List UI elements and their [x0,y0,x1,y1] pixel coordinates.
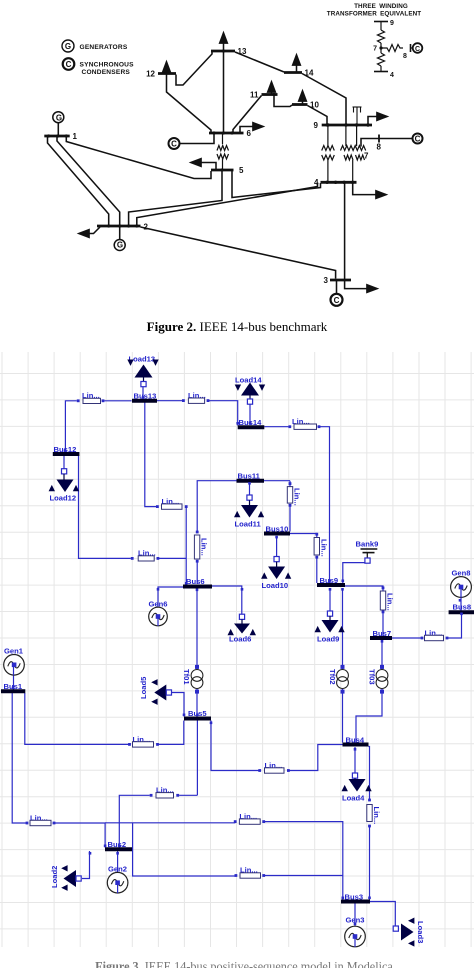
wire bus13 down to line13-6 [145,403,158,507]
wire bus6 to tf01 [196,589,198,670]
line Lin2-5 [150,786,179,798]
transformer Tf01 [182,665,203,694]
bus 13 arrow [223,33,225,51]
svg-text:C: C [171,140,177,149]
svg-text:Load14: Load14 [235,376,262,385]
load12 [49,469,80,503]
bus 9 [322,124,372,127]
line Lin2-4 [234,812,265,824]
wire line7-9 to bus7 [382,610,384,636]
load9 [315,611,345,644]
line Lin6-11 vertical [194,531,208,563]
svg-text:11: 11 [250,91,259,100]
wire bus3 to load3 [370,902,395,927]
wire line13-14 to bus14 [208,401,238,426]
wire load13 to bus13 [142,386,144,399]
svg-text:7: 7 [364,152,369,161]
svg-text:SYNCHRONOUS: SYNCHRONOUS [80,62,135,69]
svg-text:Figure 3. IEEE 14-bus positive: Figure 3. IEEE 14-bus positive-sequence … [95,960,393,968]
svg-text:Bus8: Bus8 [453,603,472,612]
bus5 bar [184,709,211,719]
svg-text:8: 8 [403,53,407,60]
line Lin1-5 [128,735,159,747]
wire gen3 to bus3 [354,904,356,937]
inset title THREE WINDING TRANSFORMER EQUIVALENT [327,3,421,18]
line 1-2 circuit a [48,137,109,225]
generator Gen8 [451,569,472,598]
svg-text:5: 5 [239,166,244,175]
svg-text:Tf02: Tf02 [328,669,337,685]
bus10 bar [264,525,290,534]
bus11 bar [237,472,265,481]
generator G2 [114,227,125,251]
transformer Tf02 [328,665,348,694]
load13 pointing up [127,355,158,387]
legend generator symbol G [62,40,74,52]
wire bus4 to load4 [354,747,356,773]
bus 14 [284,71,302,74]
line 1-5 [66,137,211,179]
wire bus12 to load12 [63,456,65,469]
wire bus10 right to line9-10 [290,534,317,538]
bus 12 [158,72,176,75]
svg-text:12: 12 [146,70,155,79]
line 2-5 [129,171,222,226]
line Lin3-4 vertical [367,799,381,828]
line 14-9 [302,74,346,125]
wire line12-13 to bus12 [65,401,76,452]
svg-text:G: G [56,114,62,123]
svg-text:Bus10: Bus10 [266,525,289,534]
wire line12-6 to bus6 [158,557,187,559]
bus 12 arrow [166,62,168,73]
wire bus7 right to line7-8 [392,637,422,639]
svg-text:3: 3 [324,276,329,285]
inset condenser C8 [411,43,423,53]
wire bus7 to tf03 [381,640,383,670]
line Lin7-9 vertical [380,587,394,614]
svg-text:Bus11: Bus11 [238,472,261,481]
svg-text:Bus7: Bus7 [373,629,392,638]
svg-text:C: C [415,46,420,53]
svg-text:Lin...: Lin... [292,488,301,506]
svg-text:CONDENSERS: CONDENSERS [82,69,131,76]
bus 10 [292,103,308,106]
wire line1-5 to bus5 [158,721,184,745]
line Lin13-14 [182,391,209,403]
wire tf03 to bus4 [356,689,382,743]
svg-text:Load9: Load9 [317,635,339,644]
line 5-4 [232,171,321,198]
svg-text:G: G [117,241,123,250]
wire line2-5 to bus2 [119,795,149,847]
svg-text:C: C [415,135,421,144]
wire line10-11 to bus10 [289,481,291,532]
line 11-6 [233,96,262,134]
line 13-6 [223,52,225,133]
wire line2-3 to bus3 [264,875,343,877]
wire line14-9 down to bus9 [318,427,330,583]
line Lin4-5 [258,761,290,773]
bus9 bar [317,576,345,585]
inset resistor 7-8 [381,45,403,52]
svg-text:6: 6 [247,129,252,138]
wire bus5 right to line4-5 [211,721,260,771]
svg-text:Tf03: Tf03 [368,669,377,685]
wire bus13 right to line13-14 [157,400,183,402]
svg-text:9: 9 [390,20,394,27]
bus 9 load arrow [368,117,387,125]
wire tf02 to bus4 [342,689,344,743]
svg-text:TRANSFORMER EQUIVALENT: TRANSFORMER EQUIVALENT [327,11,421,18]
bus13 bar [132,392,157,401]
inset node 7 [379,46,382,49]
wire gen8 to bus8 [460,587,462,611]
wire bus11 right to line10-11 [264,480,290,482]
transformer Tf03 [368,665,388,694]
svg-text:Load6: Load6 [229,635,251,644]
svg-text:1: 1 [73,132,78,141]
svg-text:Bus2: Bus2 [108,840,127,849]
generator Gen2 [107,865,128,894]
line Lin12-13 [77,391,105,404]
inset node 8 tick [410,44,412,52]
junction squares [12,396,463,925]
bus 14 arrow [296,55,298,72]
bus 6 [209,132,244,135]
bus4 bar [343,736,369,745]
bus 13 [211,50,235,53]
svg-text:2: 2 [144,223,149,232]
bus 4 [321,181,357,184]
svg-text:Load5: Load5 [139,676,148,699]
svg-text:Bus4: Bus4 [346,736,365,745]
svg-text:Figure 2. IEEE 14-bus benchmar: Figure 2. IEEE 14-bus benchmark [147,319,328,334]
wire bus1 to line1-2 [12,693,27,823]
bus 2 load arrow [79,227,100,234]
condenser C6 [169,134,215,149]
svg-text:Load2: Load2 [50,866,59,888]
wire line1-2 to bus2 [54,823,105,848]
bus 3 load arrow [345,281,377,289]
wire line6-11 to bus6 [196,561,198,584]
wire bus12 right down to line12-6 [79,456,131,558]
svg-text:Load10: Load10 [262,581,289,590]
load5 pointing left [139,676,172,705]
line Lin13-6 [156,497,188,509]
line Lin12-6 [131,549,160,561]
wire bus1 to line1-5 [25,693,130,744]
bus 11 [262,93,278,96]
load4 [342,773,372,803]
line Lin14-9 [288,417,320,429]
inset wire 9 to resistor [380,22,382,31]
bus8 bar [449,603,474,613]
bus 5 load arrow [191,163,216,170]
wire bus13 left to line12-13 [104,400,131,402]
wire load2 to bus2 [82,851,90,879]
wire gen1 to bus1 [13,665,15,690]
inset node 4 [374,71,388,73]
wire bus10 to load10 [276,536,278,557]
svg-text:Tf01: Tf01 [182,669,191,685]
line 12-6 [167,75,212,134]
svg-text:Load3: Load3 [416,921,425,943]
svg-text:C: C [334,296,340,305]
wire gen6 to bus6 [158,587,183,617]
inset wire to node 4 [380,66,382,72]
svg-text:7: 7 [373,46,377,53]
junction dots bus 4 [325,181,354,184]
bus6 bar [183,577,212,587]
line 3-4 [344,183,346,279]
svg-text:8: 8 [377,143,382,152]
wire bus9 right to line7-9 [345,586,383,591]
bus 10 arrow [302,91,304,104]
capacitor Bank9 [356,540,379,564]
svg-text:Load11: Load11 [235,520,262,529]
load14 pointing up [235,376,265,405]
generator Gen3 [345,916,366,948]
wire line2-4b to bus3 [264,822,343,900]
wire line4-5 to bus4 [288,745,342,771]
transformer 9-4 [322,126,335,181]
load10 [261,557,291,591]
junction dots bus 9 [326,123,370,126]
three winding transformer 9-7-4 [341,126,366,181]
wire bus9 to load9 [329,588,331,611]
load11 [234,495,264,529]
bus 5 [211,169,234,172]
transformer 5-6 [217,134,228,169]
svg-text:GENERATORS: GENERATORS [80,44,128,51]
svg-text:Bus13: Bus13 [134,392,157,401]
svg-text:THREE WINDING: THREE WINDING [354,3,408,10]
svg-text:Lin...: Lin... [372,807,381,825]
bus 3 [330,279,351,282]
svg-text:Lin...: Lin... [319,539,328,557]
line 1-2 circuit b [57,137,120,225]
svg-text:Lin...: Lin... [386,593,395,611]
line Lin7-8 [421,629,449,641]
condenser C8 [413,134,423,144]
svg-text:Bank9: Bank9 [356,540,379,549]
wire bus14 to load14 [249,403,251,425]
wire gen2 to bus2 [117,851,119,882]
bus 9 shunt capacitor [353,107,362,125]
inset wire 7 down [380,43,382,53]
wire bus2 right to line2-4b [105,822,235,824]
generator Gen6 [149,600,168,627]
load2 pointing left [50,865,81,891]
node 8 tick [378,135,380,143]
condenser C3 [331,281,343,306]
svg-text:C: C [66,60,72,69]
svg-text:Lin...: Lin... [200,538,209,556]
bus14 bar [238,418,265,427]
bus 4 load arrow [353,184,386,195]
legend label SYNCHRONOUS CONDENSERS [80,62,135,77]
svg-text:Bus3: Bus3 [345,893,364,902]
bus 1 [44,135,69,138]
line Lin9-10 vertical [314,533,328,559]
svg-text:4: 4 [390,72,394,79]
bus 6 load arrow [240,127,263,133]
inset resistor 7-4 [378,53,385,66]
inset resistor 9-7 [378,30,385,43]
line 10-9 [308,106,328,125]
wire bus11 left to line6-11 [197,481,236,532]
wire bus9 to tf02 [342,588,344,670]
generator Gen1 [4,647,25,676]
bus2 bar [105,840,132,849]
wire bus14 right to line14-9 [264,426,288,428]
wire bus11 to load11 [249,483,251,495]
wire line3-4 to bus3 [369,826,371,900]
svg-text:Load4: Load4 [342,794,365,803]
line 2-3 [141,227,336,279]
svg-text:4: 4 [314,178,319,187]
wire tf01 to bus5 [196,689,198,717]
bus 11 arrow [271,82,273,94]
line Lin2-3 [235,866,266,879]
bus12 bar [53,445,80,454]
wire bus2 node to line2-3 [133,823,236,876]
legend condenser symbol C [63,58,75,70]
bus1 bar [1,682,25,691]
line 2-4 [137,183,318,227]
bus 2 [97,225,141,228]
wire bus6 to load6 [211,586,242,614]
bus3 bar [341,893,370,902]
inset node 9 [374,21,388,23]
wire bus5 to line2-5 [179,721,197,796]
wire load5 to bus5 [172,693,185,717]
junction dots misc [47,49,329,227]
wire bank9 to bus9 [343,563,368,583]
svg-text:9: 9 [314,121,319,130]
line 7-8 [361,139,412,147]
wire line7-8 to bus8 [447,614,462,638]
load6 [228,614,257,643]
svg-text:Load12: Load12 [50,494,77,503]
line 12-13 [176,52,212,86]
generator G1 [53,112,64,135]
svg-text:Load13: Load13 [129,355,156,364]
load3 pointing right [393,918,425,947]
line 11-10 [274,96,292,107]
bus7 bar [370,629,392,638]
wire line13-6 to bus6 [185,507,187,584]
svg-text:G: G [65,42,71,51]
svg-text:Bus6: Bus6 [186,577,205,586]
line Lin1-2 [26,814,56,826]
wire bus4 right to line3-4 [369,747,370,801]
wire line9-10 to bus9 [316,556,318,583]
line Lin10-11 vertical [287,482,301,506]
line 13-14 [235,52,284,72]
